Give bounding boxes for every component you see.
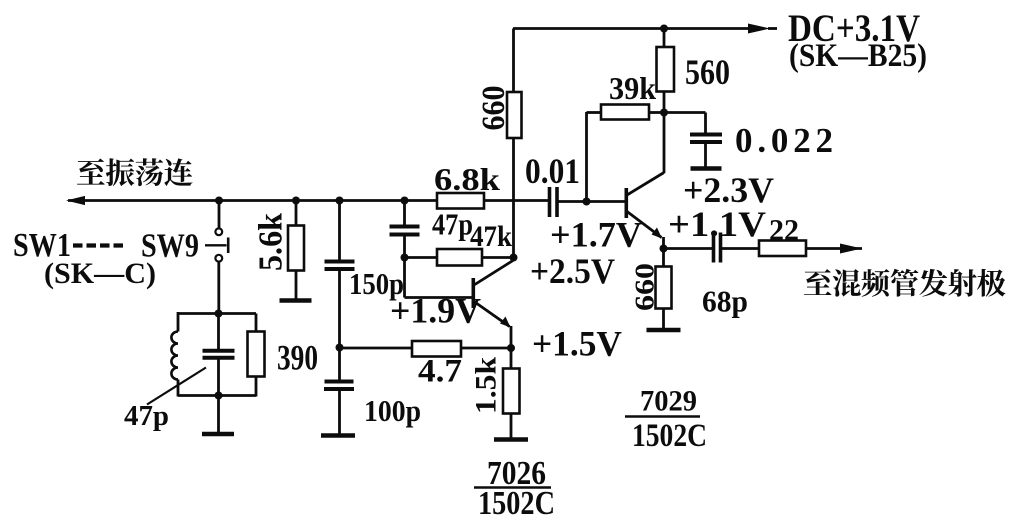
svg-text:+1.7V: +1.7V [550,215,642,255]
svg-text:68p: 68p [702,284,748,319]
svg-text:39k: 39k [609,70,656,106]
svg-text:4.7: 4.7 [418,354,462,390]
svg-text:100p: 100p [364,393,421,428]
svg-text:47p: 47p [124,401,169,432]
svg-text:1502C: 1502C [632,418,707,454]
svg-text:+1.9V: +1.9V [390,291,481,331]
svg-text:(SK—C): (SK—C) [44,257,156,290]
svg-text:5.6k: 5.6k [253,213,290,271]
svg-text:1.5k: 1.5k [470,357,503,414]
svg-text:47p: 47p [432,207,473,242]
svg-text:+1.1V: +1.1V [668,204,766,244]
svg-text:0.022: 0.022 [735,121,833,160]
svg-text:0.01: 0.01 [525,151,580,191]
svg-text:390: 390 [277,338,318,378]
svg-text:660: 660 [476,86,512,131]
svg-text:+1.5V: +1.5V [532,324,622,364]
svg-text:560: 560 [685,52,730,92]
svg-text:6.8k: 6.8k [434,161,500,197]
svg-text:+2.5V: +2.5V [530,251,615,291]
svg-text:7029: 7029 [640,385,697,418]
svg-text:660: 660 [630,263,660,311]
svg-text:47k: 47k [470,220,512,253]
svg-text:22: 22 [769,212,799,247]
svg-text:1502C: 1502C [478,485,555,522]
svg-text:(SK—B25): (SK—B25) [789,38,927,74]
